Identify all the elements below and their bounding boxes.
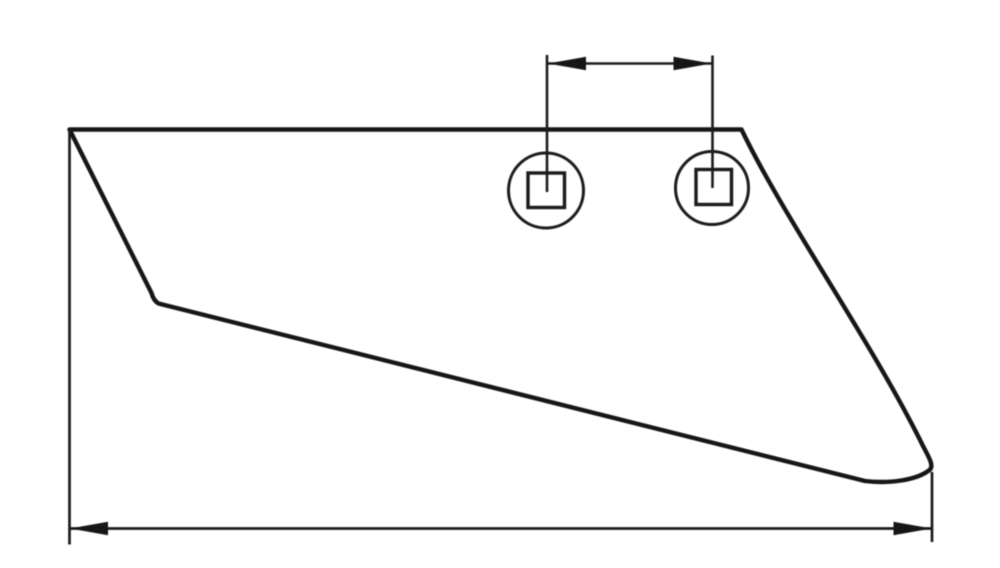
extension line bottom-right (overall width) <box>931 472 934 542</box>
hole 1 circle (left counterbore) <box>509 153 584 228</box>
extension line bottom-left (overall width) <box>68 130 71 545</box>
bottom dimension arrowhead right <box>894 522 932 535</box>
hole 1 square (carriage bolt hole) <box>528 173 565 208</box>
top dimension arrowhead left <box>548 57 586 70</box>
top dimension line (hole spacing) <box>547 62 713 65</box>
extension line left hole (center line) <box>546 55 549 192</box>
extension line right hole (center line) <box>711 56 714 189</box>
part outline (plow share / skimmer blade) <box>70 130 932 482</box>
bottom dimension arrowhead left <box>70 522 108 535</box>
hole 2 circle (right counterbore) <box>676 152 749 225</box>
hole 2 square (carriage bolt hole) <box>696 170 732 205</box>
top dimension arrowhead right <box>674 57 712 70</box>
bottom dimension line (overall width) <box>70 527 932 530</box>
